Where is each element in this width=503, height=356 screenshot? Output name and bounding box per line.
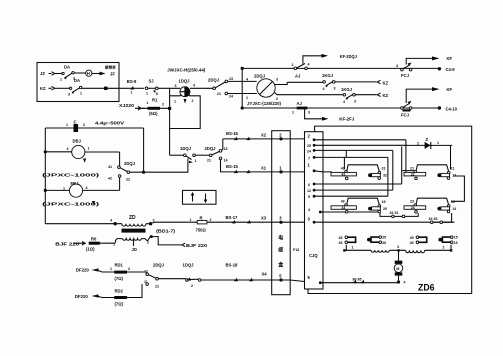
wire with junction	[82, 87, 128, 89]
wire KZ row B	[281, 94, 343, 96]
wire top row 68	[242, 67, 439, 69]
svg-text:1DQJ: 1DQJ	[183, 263, 195, 268]
svg-text:46: 46	[410, 241, 414, 245]
svg-text:4: 4	[86, 186, 88, 190]
svg-text:1: 1	[88, 147, 90, 151]
svg-text:3: 3	[334, 87, 336, 91]
svg-text:1: 1	[195, 159, 197, 163]
wire	[158, 87, 180, 89]
svg-text:34 33: 34 33	[429, 217, 438, 221]
svg-text:43: 43	[341, 200, 345, 204]
svg-text:2DQJ: 2DQJ	[124, 161, 136, 166]
wire branch KF top	[406, 58, 432, 64]
svg-text:4: 4	[308, 208, 310, 212]
wire strip crossings	[272, 139, 305, 282]
wire common	[158, 278, 186, 280]
svg-text:KF-2DQJ: KF-2DQJ	[340, 54, 358, 59]
wire X3 row	[152, 221, 271, 224]
svg-text:1: 1	[66, 123, 68, 127]
svg-text:1: 1	[308, 163, 311, 168]
svg-text:1: 1	[190, 218, 192, 222]
svg-text:13: 13	[224, 147, 228, 151]
svg-text:5: 5	[308, 275, 311, 280]
svg-text:KZ: KZ	[40, 86, 46, 91]
svg-text:(5Ω): (5Ω)	[149, 111, 158, 116]
transformer core	[122, 229, 146, 233]
wire row 108	[242, 107, 439, 109]
svg-text:46: 46	[339, 241, 343, 245]
svg-text:DA: DA	[74, 78, 80, 83]
svg-text:F13: F13	[293, 248, 299, 252]
svg-text:44: 44	[341, 206, 345, 210]
svg-text:11: 11	[451, 167, 455, 171]
svg-text:BJF 220: BJF 220	[186, 243, 208, 248]
svg-text:24: 24	[411, 206, 415, 210]
svg-text:ZD: ZD	[129, 215, 136, 221]
wire 2DQJ right pins	[275, 82, 288, 94]
node KZ A	[377, 80, 380, 84]
svg-text:KZ: KZ	[383, 93, 389, 98]
wire motor field line	[344, 249, 451, 251]
svg-text:14: 14	[452, 207, 456, 211]
wire arrow to JF	[92, 73, 100, 75]
transformer secondary	[122, 239, 141, 241]
svg-text:2: 2	[192, 99, 194, 103]
svg-text:电: 电	[278, 235, 283, 242]
svg-text:22: 22	[411, 173, 415, 177]
svg-text:2: 2	[443, 246, 445, 250]
wire branch KF bottom	[406, 89, 432, 103]
svg-text:C4-10: C4-10	[446, 107, 458, 112]
svg-text:4: 4	[343, 100, 345, 104]
wire throws to 2DQJ coil	[228, 81, 257, 93]
svg-text:5: 5	[279, 274, 282, 279]
svg-text:DF220: DF220	[75, 294, 89, 299]
svg-text:25: 25	[382, 236, 386, 240]
wire X2 row	[222, 139, 272, 150]
svg-text:X2: X2	[261, 132, 267, 137]
lamp H	[86, 70, 92, 76]
cable box strip	[272, 131, 291, 295]
svg-text:15: 15	[454, 236, 458, 240]
svg-text:32 31: 32 31	[390, 211, 399, 215]
node X4-9	[438, 67, 441, 70]
svg-text:42: 42	[108, 177, 112, 181]
svg-text:2: 2	[292, 63, 294, 67]
svg-text:4: 4	[246, 78, 248, 82]
contact 2DQJ transfer left	[119, 152, 121, 190]
svg-text:AJ: AJ	[295, 74, 301, 79]
wire interior vertical links	[344, 140, 464, 222]
svg-text:(7Ω): (7Ω)	[115, 276, 124, 281]
svg-text:9: 9	[308, 195, 310, 199]
svg-text:缆: 缆	[278, 247, 283, 254]
svg-text:22: 22	[126, 178, 130, 182]
terminal strip CJQ	[305, 132, 324, 289]
svg-text:H: H	[87, 71, 90, 76]
svg-text:JWJXC-H(25/0.44): JWJXC-H(25/0.44)	[167, 68, 206, 73]
svg-text:32: 32	[383, 174, 387, 178]
contact 1DQJ middle	[170, 154, 184, 156]
svg-text:(1Ω): (1Ω)	[86, 247, 95, 252]
svg-text:X4: X4	[262, 271, 268, 276]
svg-text:21: 21	[207, 159, 211, 163]
wire X1 row	[221, 160, 272, 172]
wire KZ row A	[287, 81, 323, 83]
svg-text:41: 41	[341, 166, 345, 170]
motor M	[398, 250, 400, 260]
svg-text:86 85: 86 85	[353, 277, 362, 281]
svg-text:4: 4	[404, 280, 406, 284]
contact group G3	[331, 198, 387, 213]
svg-text:4: 4	[110, 219, 112, 223]
svg-text:RD1: RD1	[115, 263, 124, 268]
svg-text:45: 45	[339, 236, 343, 240]
svg-text:1KGJ: 1KGJ	[322, 73, 334, 78]
svg-text:R0: R0	[91, 237, 97, 242]
svg-text:21: 21	[155, 285, 159, 289]
svg-text:14: 14	[224, 159, 228, 163]
svg-text:(JPXC-1000): (JPXC-1000)	[42, 173, 100, 178]
svg-text:3: 3	[279, 215, 282, 220]
svg-text:7: 7	[308, 156, 310, 160]
svg-text:12: 12	[307, 189, 311, 193]
svg-text:JD: JD	[132, 247, 137, 252]
svg-text:BJF 220: BJF 220	[55, 242, 80, 247]
svg-text:20: 20	[383, 207, 387, 211]
wire branch KF-2DQJ	[303, 56, 322, 64]
svg-text:2: 2	[191, 284, 193, 288]
svg-text:SJ: SJ	[149, 79, 155, 84]
relay coil DBJ	[45, 151, 72, 153]
contact group G6	[367, 236, 386, 245]
svg-text:41: 41	[108, 165, 112, 169]
svg-text:4.4μ~500V: 4.4μ~500V	[95, 121, 124, 126]
svg-text:2DQJ: 2DQJ	[254, 74, 266, 79]
svg-text:(BD1-7): (BD1-7)	[156, 229, 176, 234]
svg-text:1: 1	[146, 92, 148, 96]
svg-text:3: 3	[175, 84, 177, 88]
wire	[74, 72, 85, 74]
svg-text:2: 2	[308, 134, 311, 139]
svg-text:45: 45	[410, 236, 414, 240]
svg-text:JYJXC-(135/220): JYJXC-(135/220)	[247, 101, 282, 106]
svg-text:1: 1	[131, 91, 133, 95]
svg-text:盒: 盒	[277, 262, 284, 269]
box ZD6 outline	[308, 126, 472, 293]
wire	[55, 73, 62, 75]
svg-text:750Ω: 750Ω	[196, 228, 207, 233]
node DBJ junction	[44, 150, 47, 153]
svg-text:解锁表: 解锁表	[104, 65, 116, 70]
svg-text:1: 1	[279, 165, 282, 170]
svg-text:FCJ: FCJ	[401, 113, 410, 118]
svg-text:24: 24	[229, 95, 233, 99]
svg-text:6: 6	[308, 183, 310, 187]
contact group G8	[438, 236, 457, 245]
svg-text:1: 1	[352, 246, 354, 250]
svg-text:1: 1	[80, 92, 82, 96]
svg-text:1: 1	[174, 100, 176, 104]
svg-text:C4-9: C4-9	[446, 67, 456, 72]
svg-text:AJ: AJ	[297, 101, 303, 106]
svg-text:12: 12	[452, 174, 456, 178]
wire coil bottom loop	[170, 88, 201, 155]
svg-text:3: 3	[276, 78, 278, 82]
svg-text:KZ: KZ	[383, 81, 389, 86]
contact group G7	[410, 236, 427, 245]
node FBJ junction	[44, 189, 47, 192]
contact group G2	[404, 165, 456, 180]
svg-text:1: 1	[63, 187, 65, 191]
relay coil FBJ	[45, 189, 69, 191]
svg-text:BS-9: BS-9	[127, 79, 137, 84]
node KZ B	[377, 93, 380, 97]
svg-text:42: 42	[341, 173, 345, 177]
wire bus	[241, 68, 243, 108]
contact group G1	[331, 165, 387, 180]
svg-text:BS-16: BS-16	[226, 131, 239, 136]
svg-text:26: 26	[382, 241, 386, 245]
svg-text:21: 21	[410, 166, 414, 170]
svg-text:BS-17: BS-17	[226, 215, 239, 220]
svg-text:Z: Z	[426, 137, 429, 142]
svg-text:4: 4	[323, 87, 325, 91]
svg-text:4: 4	[308, 63, 310, 67]
svg-text:1KGJ: 1KGJ	[341, 87, 353, 92]
svg-text:1: 1	[292, 111, 294, 115]
svg-text:KF: KF	[447, 56, 453, 61]
svg-text:1: 1	[60, 78, 62, 82]
svg-text:1: 1	[437, 141, 439, 145]
contact 2DQJ transfer middle	[195, 154, 209, 156]
box direction indicator	[183, 190, 217, 204]
svg-text:24: 24	[307, 149, 311, 153]
node X4-10	[438, 106, 441, 109]
svg-text:X3: X3	[261, 215, 267, 220]
svg-text:23: 23	[229, 77, 233, 81]
wire	[55, 87, 70, 89]
svg-text:DF220: DF220	[76, 268, 90, 273]
svg-text:FCJ: FCJ	[401, 73, 410, 78]
svg-text:JZ: JZ	[40, 71, 45, 76]
svg-text:25: 25	[307, 144, 311, 148]
wire interior rows X1-X4 and terminal rows	[314, 140, 454, 283]
svg-text:2: 2	[210, 218, 212, 222]
svg-text:31: 31	[382, 167, 386, 171]
svg-text:3: 3	[308, 111, 310, 115]
wire common to right	[130, 159, 188, 173]
svg-text:DBJ: DBJ	[73, 139, 82, 144]
svg-text:16: 16	[454, 241, 458, 245]
svg-text:3: 3	[397, 245, 399, 249]
svg-text:(JPXC-1000): (JPXC-1000)	[42, 202, 100, 207]
svg-text:2DQJ: 2DQJ	[205, 146, 217, 151]
svg-text:3: 3	[68, 93, 70, 97]
svg-text:KF-2FJ: KF-2FJ	[339, 116, 355, 121]
svg-text:BS-15: BS-15	[226, 164, 239, 169]
svg-text:R1: R1	[152, 98, 158, 103]
svg-text:3: 3	[354, 100, 356, 104]
svg-text:1: 1	[110, 267, 112, 271]
contact FCJ bottom	[401, 107, 404, 110]
svg-text:M: M	[396, 267, 399, 271]
svg-text:(7Ω): (7Ω)	[115, 302, 124, 307]
svg-text:3: 3	[308, 217, 311, 222]
svg-text:2DQJ: 2DQJ	[153, 263, 165, 268]
contact FCJ top	[401, 68, 404, 71]
svg-text:1DQJ: 1DQJ	[179, 78, 191, 83]
svg-text:KF: KF	[447, 87, 453, 92]
svg-text:2DQJ: 2DQJ	[208, 78, 220, 83]
svg-text:21: 21	[217, 92, 221, 96]
svg-text:ZD6: ZD6	[418, 283, 435, 294]
svg-text:1: 1	[147, 101, 149, 105]
svg-text:XJ220: XJ220	[119, 103, 135, 108]
svg-text:23: 23	[410, 200, 414, 204]
svg-text:2: 2	[83, 123, 85, 127]
svg-text:13: 13	[451, 200, 455, 204]
box unlock-indicator	[37, 63, 119, 102]
wire left loop	[45, 128, 143, 224]
svg-text:4: 4	[396, 64, 398, 68]
svg-text:JF: JF	[110, 72, 115, 77]
svg-text:R: R	[200, 216, 203, 221]
svg-text:CJQ: CJQ	[309, 253, 318, 258]
svg-text:RD2: RD2	[115, 289, 124, 294]
svg-text:1DQJ: 1DQJ	[180, 146, 192, 151]
svg-text:2: 2	[279, 133, 282, 138]
node JD tap	[133, 240, 135, 246]
contact group G5	[339, 236, 356, 245]
svg-text:4: 4	[67, 147, 69, 151]
svg-text:X1: X1	[261, 165, 267, 170]
svg-text:1: 1	[246, 96, 248, 100]
svg-text:BS-18: BS-18	[226, 263, 239, 268]
wire branch KF-2FJ	[305, 109, 323, 118]
svg-text:C: C	[74, 120, 77, 125]
contact group G4	[404, 198, 456, 213]
svg-text:DA: DA	[64, 64, 70, 69]
svg-text:2: 2	[162, 103, 164, 107]
svg-text:19: 19	[382, 200, 386, 204]
svg-text:6: 6	[156, 92, 158, 96]
svg-text:2: 2	[128, 267, 130, 271]
svg-text:4: 4	[193, 84, 195, 88]
